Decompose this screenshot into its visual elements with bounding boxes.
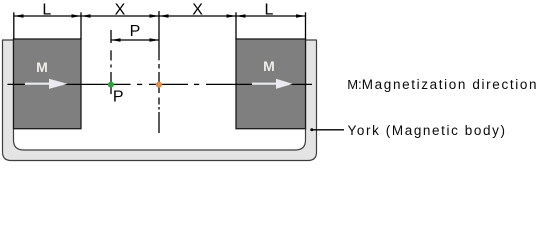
vertical center line (dash-dot) bbox=[158, 11, 160, 133]
point P marker (green) bbox=[108, 82, 114, 88]
svg-text:L: L bbox=[42, 2, 51, 19]
magnet right bbox=[236, 39, 306, 129]
P dimension arrowheads bbox=[111, 38, 159, 42]
extension line left magnet left edge bbox=[13, 12, 15, 39]
magnet left bbox=[14, 39, 82, 129]
svg-text:P: P bbox=[113, 89, 124, 106]
york pointer line bbox=[312, 129, 344, 131]
top dimension line bbox=[14, 15, 306, 17]
extension line right magnet left edge bbox=[235, 12, 237, 39]
svg-text:X: X bbox=[192, 2, 203, 19]
P dimension line bbox=[111, 39, 159, 41]
magnetization arrow right bbox=[252, 79, 293, 89]
svg-text:P: P bbox=[130, 23, 141, 40]
extension line right magnet right edge bbox=[305, 12, 307, 39]
york pointer dot bbox=[310, 128, 313, 131]
center point marker (orange) bbox=[156, 82, 162, 88]
svg-text:York (Magnetic body): York (Magnetic body) bbox=[348, 123, 507, 138]
svg-text:M: M bbox=[36, 59, 48, 75]
magnetization arrow left bbox=[25, 79, 68, 89]
yoke (York magnetic body) U-shaped tray bbox=[3, 40, 317, 161]
dimension arrowheads top line bbox=[14, 14, 306, 18]
extension line left magnet right edge bbox=[80, 12, 82, 39]
svg-text:M: M bbox=[263, 58, 275, 74]
svg-text:X: X bbox=[115, 2, 126, 19]
vertical line through point P (dash-dot) bbox=[110, 30, 112, 94]
svg-text:M:Magnetization direction: M:Magnetization direction bbox=[347, 77, 538, 92]
horizontal center axis (dash-dot) bbox=[8, 83, 313, 85]
svg-text:L: L bbox=[264, 2, 273, 19]
